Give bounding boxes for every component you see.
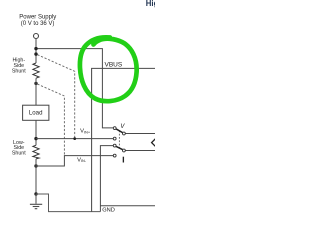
svg-text:VIN-: VIN-: [77, 157, 87, 163]
wire: GND pin up to switch contact: [100, 146, 113, 212]
resistor: high-side shunt: [33, 63, 39, 78]
resistor: low-side shunt: [33, 145, 39, 159]
wire: internal GND rail: [100, 205, 155, 207]
contact: GND: [113, 144, 116, 147]
IC box left and top edges: [92, 68, 155, 211]
contact: VIN-: [113, 154, 116, 157]
ADC diamond (clipped at right edge): [152, 138, 161, 147]
node: high-side shunt bottom: [34, 82, 37, 85]
ground symbol: [35, 194, 37, 204]
node: dashed joins VIN+: [73, 137, 76, 140]
wire: shunt bottom to ground: [35, 159, 37, 194]
svg-text:Power Supply: Power Supply: [19, 14, 56, 20]
svg-text:VIN+: VIN+: [80, 129, 91, 135]
svg-text:Shunt: Shunt: [12, 68, 26, 74]
svg-text:VBUS: VBUS: [105, 61, 123, 68]
wire: VIN- to switch contact (with jog): [36, 156, 113, 166]
wire: ground to GND pin: [36, 194, 100, 212]
wire: shunt to load: [35, 78, 37, 105]
switch pole A wire to ADC: [125, 133, 155, 135]
contact: VIN+: [113, 137, 116, 140]
switch lever I: [116, 146, 123, 150]
svg-text:Load: Load: [29, 109, 43, 116]
pole contact B: [123, 149, 126, 152]
wire: VIN+ to switch contact: [36, 138, 113, 140]
wire: load to low-side shunt: [35, 120, 37, 145]
load box: [23, 105, 49, 120]
label I (current position): [123, 157, 124, 163]
wire: supply rail to VBUS pin: [36, 49, 113, 128]
node: low-side shunt bottom / VIN-: [34, 164, 37, 167]
svg-text:Hig: Hig: [146, 0, 155, 8]
green annotation ring around VBUS: [80, 37, 137, 101]
node: low-side shunt top / VIN+: [34, 137, 37, 140]
node: rail junction: [34, 47, 37, 50]
pole contact A: [123, 132, 126, 135]
switch pole B wire to ADC: [125, 150, 155, 152]
supply terminal circle: [34, 34, 39, 39]
dashed wire: high-side bottom to VIN-: [37, 84, 64, 155]
switch lever V: [116, 129, 123, 133]
switch gang dashed link: [118, 130, 120, 148]
wire: terminal to rail: [35, 39, 37, 63]
svg-text:(0 V to 36 V): (0 V to 36 V): [21, 21, 55, 27]
node: high-side shunt top: [34, 52, 37, 55]
svg-text:Shunt: Shunt: [12, 151, 26, 157]
svg-text:GND: GND: [102, 208, 115, 214]
node: ground junction: [34, 192, 37, 195]
contact: VBUS: [113, 127, 116, 130]
dashed wire: high-side top to VIN+: [37, 55, 74, 139]
